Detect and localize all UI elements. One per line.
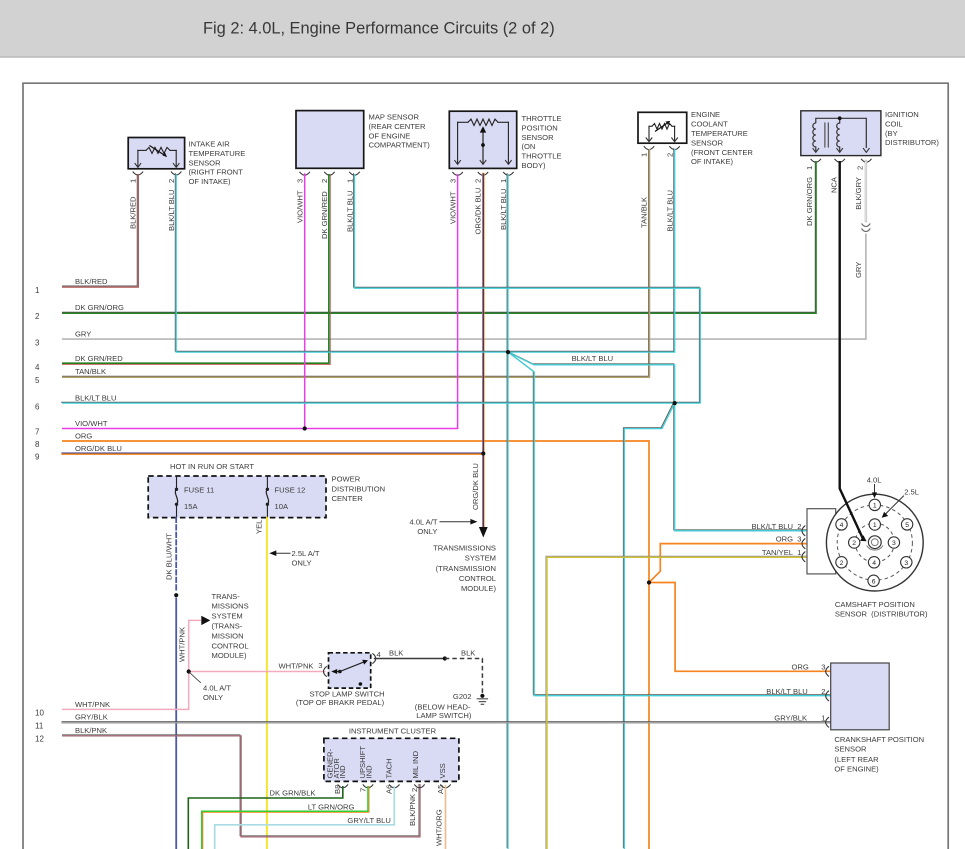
svg-text:2: 2 — [320, 179, 329, 183]
crankshaft position sensor label — [834, 735, 924, 774]
junction VIO/WHT row 7 / MAP pin 3 — [303, 426, 307, 430]
wire BLK/LT BLU intake pin 2 down and right to junction J1 — [175, 173, 507, 351]
svg-text:GRY/LT BLU: GRY/LT BLU — [347, 816, 390, 825]
svg-text:2: 2 — [474, 179, 483, 183]
stop lamp switch box — [329, 653, 371, 688]
row wire name labels — [75, 277, 124, 735]
wire BLK/LT BLU J1 right to ECT pin 2 — [507, 148, 674, 351]
ECT sensor label — [691, 110, 753, 166]
stop lamp switch pin 3 arc — [323, 666, 326, 676]
svg-text:DK GRN/BLK: DK GRN/BLK — [270, 788, 316, 797]
svg-text:MIL IND: MIL IND — [411, 750, 420, 778]
svg-text:BLK/LT BLU: BLK/LT BLU — [572, 354, 614, 363]
svg-text:BLK/RED: BLK/RED — [75, 277, 108, 286]
stop lamp switch pin 4 arc — [372, 653, 375, 663]
svg-text:1: 1 — [640, 153, 649, 157]
svg-text:12: 12 — [35, 735, 44, 744]
svg-text:LAMP SWITCH): LAMP SWITCH) — [416, 711, 472, 720]
svg-text:3: 3 — [797, 535, 801, 544]
junction WHT/PNK — [187, 669, 191, 673]
svg-text:2: 2 — [35, 312, 40, 321]
svg-text:1: 1 — [129, 179, 138, 183]
label TRANS-MISSIONS SYSTEM (TRANS-MISSION CONTROL MODULE) left — [212, 592, 249, 660]
svg-text:BLK: BLK — [389, 648, 403, 657]
svg-text:6: 6 — [35, 402, 40, 411]
svg-text:NCA: NCA — [830, 176, 839, 193]
svg-text:MISSIONS: MISSIONS — [212, 602, 249, 611]
svg-text:ORG: ORG — [75, 431, 92, 440]
svg-text:10: 10 — [35, 709, 44, 718]
svg-text:BLK/LT BLU: BLK/LT BLU — [766, 687, 808, 696]
svg-text:SENSOR: SENSOR — [522, 133, 555, 142]
svg-text:7: 7 — [35, 428, 40, 437]
svg-text:3: 3 — [318, 661, 322, 670]
svg-text:MODULE): MODULE) — [461, 584, 496, 593]
stop lamp switch contacts — [331, 660, 368, 686]
svg-text:(RIGHT FRONT: (RIGHT FRONT — [189, 168, 244, 177]
svg-text:CONTROL: CONTROL — [212, 641, 249, 650]
distributor terminal 3 — [888, 537, 899, 548]
fuse 11 symbol — [175, 476, 178, 518]
svg-text:2: 2 — [167, 179, 176, 183]
wire LT GRN/ORG from pin 7 to bottom edge — [202, 786, 369, 849]
svg-text:Fig 2: 4.0L, Engine Performanc: Fig 2: 4.0L, Engine Performance Circuits… — [203, 20, 555, 38]
wire GRY row 3 to coil pin 2 via break — [62, 234, 866, 340]
svg-text:TRANSMISSIONS: TRANSMISSIONS — [433, 544, 496, 553]
svg-text:INTAKE AIR: INTAKE AIR — [189, 140, 231, 149]
svg-text:THROTTLE: THROTTLE — [522, 152, 562, 161]
svg-text:WHT/ORG: WHT/ORG — [435, 809, 444, 846]
row numbers 1-12 — [35, 286, 44, 744]
wire DK GRN/ORG row 2 to ignition coil pin 1 — [62, 161, 816, 313]
svg-text:IND: IND — [364, 765, 373, 779]
svg-text:BLK/LT BLU: BLK/LT BLU — [75, 394, 117, 403]
svg-text:BLK/LT BLU: BLK/LT BLU — [167, 189, 176, 231]
svg-text:INSTRUMENT CLUSTER: INSTRUMENT CLUSTER — [349, 727, 437, 736]
svg-text:ORG: ORG — [776, 535, 793, 544]
wire ORG row 8 down right side to bottom — [62, 441, 649, 849]
svg-text:WHT/PNK: WHT/PNK — [278, 662, 313, 671]
wire BLK/GRY coil pin 2 segment — [865, 161, 867, 221]
4.0L A/T ONLY pointer arrow — [440, 519, 477, 525]
label 2.5L A/T ONLY — [292, 549, 320, 567]
svg-text:2: 2 — [797, 522, 801, 531]
instrument cluster box — [324, 738, 459, 781]
svg-text:3: 3 — [295, 179, 304, 183]
svg-text:SENSOR: SENSOR — [189, 158, 222, 167]
svg-text:VIO/WHT: VIO/WHT — [295, 190, 304, 223]
svg-text:B8: B8 — [333, 785, 342, 794]
distributor outer dashed ring — [837, 505, 912, 580]
svg-text:DK GRN/ORG: DK GRN/ORG — [805, 177, 814, 226]
svg-text:TRANS-: TRANS- — [212, 592, 241, 601]
wire DK GRN/BLK from pin B8 to bottom edge — [188, 786, 342, 849]
svg-text:OF ENGINE: OF ENGINE — [369, 131, 411, 140]
svg-text:4: 4 — [35, 363, 40, 372]
cluster pin arcs — [338, 784, 451, 787]
svg-text:2: 2 — [840, 560, 844, 567]
svg-text:4.0L: 4.0L — [867, 475, 882, 484]
svg-text:TEMPERATURE: TEMPERATURE — [189, 149, 246, 158]
distributor terminal 4 — [868, 557, 879, 568]
svg-text:(BY: (BY — [885, 129, 898, 138]
distributor inner dashed ring — [855, 523, 894, 562]
wire ORG/DK BLU TPS pin 2 down to transmission arrow — [482, 174, 484, 527]
svg-text:WHT/PNK: WHT/PNK — [177, 627, 186, 662]
svg-text:VSS: VSS — [438, 763, 447, 778]
svg-text:BLK/RED: BLK/RED — [129, 196, 138, 229]
wire WHT/ORG from pin A5 to bottom edge — [445, 786, 447, 849]
svg-text:2: 2 — [852, 540, 856, 547]
wire DK BLU/WHT from fuse 11 (dashed) — [175, 518, 177, 592]
wire BLK/LT BLU TPS pin 1 vertical through J1 to bottom edge — [506, 173, 508, 848]
MAP sensor — [296, 111, 364, 176]
svg-text:ONLY: ONLY — [417, 527, 437, 536]
distributor body circle — [826, 494, 923, 591]
svg-text:BLK/GRY: BLK/GRY — [854, 177, 863, 210]
wire BLK/RED row 1 to intake pin 1 — [62, 174, 138, 287]
svg-text:HOT IN RUN OR START: HOT IN RUN OR START — [170, 462, 254, 471]
svg-text:FUSE 12: FUSE 12 — [275, 485, 306, 494]
svg-text:4: 4 — [872, 560, 876, 567]
svg-text:ORG/DK BLU: ORG/DK BLU — [471, 463, 480, 510]
svg-text:ONLY: ONLY — [292, 559, 312, 568]
wire TAN/YEL from bottom edge to camshaft pin 1 — [546, 556, 808, 849]
svg-text:DK GRN/RED: DK GRN/RED — [75, 354, 123, 363]
junction BLK — [443, 656, 447, 660]
svg-text:2: 2 — [856, 166, 865, 170]
svg-text:2: 2 — [665, 153, 674, 157]
label 4.0L A/T ONLY (left) — [203, 684, 231, 702]
svg-text:TAN/BLK: TAN/BLK — [75, 367, 106, 376]
wire BLK/LT BLU J1 diagonal to labeled run, down to J2 and camshaft pin 2 — [507, 351, 807, 530]
svg-text:11: 11 — [35, 722, 44, 731]
svg-text:SENSOR: SENSOR — [834, 744, 867, 753]
svg-text:5: 5 — [35, 376, 40, 385]
svg-text:9: 9 — [35, 453, 40, 462]
svg-text:ORG/DK BLU: ORG/DK BLU — [75, 444, 122, 453]
power distribution center box — [148, 476, 326, 518]
wire BLK/LT BLU J2 to MAP pin 1 via right riser — [354, 173, 700, 402]
junction ORG branches — [647, 580, 651, 584]
wire BLK/LT BLU J1 branch to crankshaft pin 2 — [507, 351, 830, 695]
svg-text:4.0L A/T: 4.0L A/T — [409, 517, 437, 526]
svg-text:(FRONT CENTER: (FRONT CENTER — [691, 148, 753, 157]
svg-text:OF INTAKE): OF INTAKE) — [189, 177, 232, 186]
distributor terminal 2 — [849, 537, 860, 548]
stop lamp switch label — [296, 689, 385, 707]
svg-text:1: 1 — [873, 522, 877, 529]
svg-text:1: 1 — [821, 713, 825, 722]
svg-text:DK BLU/WHT: DK BLU/WHT — [164, 533, 173, 580]
svg-text:DISTRIBUTION: DISTRIBUTION — [332, 484, 386, 493]
svg-text:COOLANT: COOLANT — [691, 120, 728, 129]
svg-text:8: 8 — [35, 440, 40, 449]
title bar — [0, 0, 965, 57]
svg-text:(REAR CENTER: (REAR CENTER — [369, 122, 426, 131]
arrowhead WHT/PNK to transmission system — [201, 616, 210, 625]
svg-text:WHT/PNK: WHT/PNK — [75, 700, 110, 709]
svg-text:15A: 15A — [184, 502, 198, 511]
ignition coil label — [885, 110, 939, 147]
svg-text:(BELOW HEAD-: (BELOW HEAD- — [415, 702, 471, 711]
svg-text:G202: G202 — [453, 692, 472, 701]
svg-text:2: 2 — [821, 687, 825, 696]
svg-text:MODULE): MODULE) — [212, 651, 247, 660]
svg-text:10A: 10A — [275, 502, 289, 511]
svg-text:(TRANSMISSION: (TRANSMISSION — [436, 564, 496, 573]
wire GRY/LT BLU from pin A6 to bottom edge — [215, 786, 395, 849]
svg-text:GRY/BLK: GRY/BLK — [75, 713, 108, 722]
wire TAN/BLK row 5 to ECT pin 1 — [62, 149, 650, 377]
svg-text:BLK/LT BLU: BLK/LT BLU — [665, 190, 674, 232]
ground G202 symbol — [477, 694, 487, 705]
svg-text:1: 1 — [797, 548, 801, 557]
camshaft connector pin arcs — [802, 526, 805, 562]
wire BLK/LT BLU row 6 into J2 — [61, 401, 674, 403]
svg-text:THROTTLE: THROTTLE — [522, 114, 562, 123]
svg-text:DK GRN/RED: DK GRN/RED — [320, 191, 329, 239]
wire BLK from switch pin 4 — [375, 658, 445, 660]
label 2.5L with arrow to inner terminal 1 — [882, 488, 919, 518]
svg-text:(ON: (ON — [522, 142, 536, 151]
2.5L A/T ONLY pointer arrow — [269, 550, 290, 556]
svg-text:TAN/BLK: TAN/BLK — [640, 197, 649, 228]
svg-text:3: 3 — [448, 179, 457, 183]
distributor terminal 1 — [869, 519, 880, 530]
svg-text:CONTROL: CONTROL — [459, 574, 496, 583]
wire ORG branch to camshaft sensor pin 3 — [649, 544, 808, 583]
svg-text:3: 3 — [892, 540, 896, 547]
fuse 12 symbol — [266, 476, 269, 518]
svg-text:TAN/YEL: TAN/YEL — [762, 548, 793, 557]
svg-text:OF INTAKE): OF INTAKE) — [691, 157, 734, 166]
svg-text:ORG: ORG — [791, 663, 808, 672]
svg-text:4: 4 — [840, 522, 844, 529]
intake air temperature sensor (thermistor) — [128, 138, 184, 175]
svg-text:BLK/PNK: BLK/PNK — [75, 726, 107, 735]
svg-text:MISSION: MISSION — [212, 631, 244, 640]
svg-text:3: 3 — [904, 560, 908, 567]
svg-text:(LEFT REAR: (LEFT REAR — [834, 755, 879, 764]
svg-text:BLK/PNK: BLK/PNK — [408, 794, 417, 826]
crankshaft sensor box — [831, 663, 890, 730]
wire ORG branch to crankshaft sensor pin 3 — [649, 583, 832, 672]
wire WHT/PNK junction to stop lamp switch pin 3 — [189, 671, 325, 673]
distributor center electrode — [867, 536, 883, 550]
svg-text:DK GRN/ORG: DK GRN/ORG — [75, 303, 124, 312]
svg-text:3: 3 — [35, 338, 40, 347]
svg-text:CENTER: CENTER — [332, 494, 364, 503]
svg-text:SENSOR: SENSOR — [691, 138, 724, 147]
distributor terminal 4 — [836, 519, 847, 530]
distributor terminal 2 — [836, 557, 847, 568]
wire DK GRN/RED row 4 to MAP pin 2 — [62, 174, 330, 365]
arrowhead ORG/DK BLU to transmission system — [479, 527, 488, 538]
cluster pin label GENERATOR IND — [326, 748, 348, 778]
svg-text:5: 5 — [905, 522, 909, 529]
wire WHT/PNK row 10 up to junction and stop lamp switch pin 3 — [62, 620, 201, 709]
intake sensor label — [189, 140, 246, 187]
camshaft position sensor label — [835, 600, 928, 618]
wire break symbol on GRY — [862, 224, 871, 232]
svg-text:COMPARTMENT): COMPARTMENT) — [369, 141, 431, 150]
svg-text:TACH: TACH — [385, 758, 394, 778]
svg-text:SYSTEM: SYSTEM — [465, 554, 496, 563]
svg-text:(TOP OF BRAKR PEDAL): (TOP OF BRAKR PEDAL) — [296, 698, 385, 707]
svg-text:1: 1 — [805, 166, 814, 170]
svg-text:3: 3 — [821, 663, 825, 672]
svg-text:TEMPERATURE: TEMPERATURE — [691, 129, 748, 138]
svg-text:2.5L A/T: 2.5L A/T — [292, 549, 320, 558]
svg-text:YEL: YEL — [255, 520, 264, 534]
wire BLK dashed to ground — [445, 659, 483, 694]
distributor terminal 1 — [869, 499, 880, 510]
svg-text:GRY/BLK: GRY/BLK — [774, 713, 807, 722]
wire VIO/WHT MAP pin 3 drop — [304, 174, 306, 429]
MAP sensor label — [369, 113, 431, 150]
svg-text:SENSOR (DISTRIBUTOR): SENSOR (DISTRIBUTOR) — [835, 610, 928, 619]
cluster pin label UPSHIFT IND — [358, 746, 374, 779]
svg-text:MAP SENSOR: MAP SENSOR — [369, 113, 420, 122]
svg-text:2.5L: 2.5L — [904, 488, 919, 497]
distributor terminal 6 — [868, 575, 879, 586]
svg-text:7: 7 — [358, 788, 367, 792]
svg-text:1: 1 — [35, 286, 40, 295]
splice on DK BLU wire — [174, 593, 178, 597]
svg-text:OF ENGINE): OF ENGINE) — [834, 764, 879, 773]
svg-text:IGNITION: IGNITION — [885, 110, 919, 119]
junction J1 BLK/LT BLU — [506, 350, 510, 354]
svg-text:COIL: COIL — [885, 119, 903, 128]
wire BLK/PNK row 12 to instrument cluster MIL IND pin 2 — [62, 735, 420, 837]
svg-text:4.0L A/T: 4.0L A/T — [203, 684, 231, 693]
svg-text:6: 6 — [872, 578, 876, 585]
svg-text:LT GRN/ORG: LT GRN/ORG — [308, 803, 355, 812]
junction J2 BLK/LT BLU — [673, 401, 677, 405]
svg-text:ENGINE: ENGINE — [691, 110, 720, 119]
engine coolant temperature sensor (thermistor) — [638, 112, 687, 149]
wire ORG/DK BLU row 9 — [62, 453, 483, 454]
svg-text:BLK: BLK — [461, 648, 475, 657]
svg-text:A6: A6 — [385, 785, 394, 794]
wire NCA from coil to distributor center — [840, 161, 867, 541]
svg-text:ORG/DK BLU: ORG/DK BLU — [474, 188, 483, 235]
svg-text:ONLY: ONLY — [203, 693, 223, 702]
leader line to 4.0L A/T ONLY — [190, 673, 201, 683]
svg-text:4: 4 — [377, 650, 381, 659]
svg-text:IND: IND — [338, 765, 347, 779]
label (BELOW HEAD-LAMP SWITCH) — [415, 702, 472, 720]
label TRANSMISSIONS SYSTEM (TRANSMISSION CONTROL MODULE) right — [433, 544, 496, 593]
crank pin arcs — [826, 666, 829, 727]
label 4.0L A/T ONLY (right) — [409, 517, 437, 535]
svg-text:2: 2 — [410, 788, 419, 792]
svg-text:A5: A5 — [436, 785, 445, 794]
camshaft connector box — [807, 509, 836, 574]
ignition coil (transformer) — [801, 111, 881, 162]
svg-text:VIO/WHT: VIO/WHT — [448, 191, 457, 224]
svg-text:VIO/WHT: VIO/WHT — [75, 419, 108, 428]
label WHT/PNK 3 at switch — [278, 661, 322, 671]
svg-text:FUSE 11: FUSE 11 — [184, 485, 214, 494]
wire VIO/WHT row 7 to TPS pin 3 — [62, 174, 458, 429]
distributor terminal 3 — [901, 557, 912, 568]
svg-text:(TRANS-: (TRANS- — [212, 622, 243, 631]
distributor terminal 5 — [901, 519, 912, 530]
wire GRY/BLK row 11 to crankshaft pin 1 — [62, 722, 832, 723]
power distribution center label — [332, 475, 386, 503]
wire YEL from fuse 12 to bottom edge — [266, 518, 268, 849]
svg-text:1: 1 — [873, 502, 877, 509]
svg-text:BODY): BODY) — [522, 161, 547, 170]
svg-text:POSITION: POSITION — [522, 123, 558, 132]
TPS label — [522, 114, 562, 170]
wire BLK/LT BLU J2 diagonal branch down to bottom edge — [623, 402, 673, 848]
junction ORG/DK BLU row 9 — [481, 451, 485, 455]
svg-text:GRY: GRY — [854, 262, 863, 278]
label 4.0L with arrow to terminal 1 — [867, 475, 882, 498]
throttle position sensor (potentiometer) — [449, 111, 516, 175]
svg-text:POWER: POWER — [332, 475, 361, 484]
svg-text:SYSTEM: SYSTEM — [212, 612, 243, 621]
svg-text:DISTRIBUTOR): DISTRIBUTOR) — [885, 138, 939, 147]
wire DK BLU solid to bottom edge — [175, 599, 177, 849]
svg-text:CAMSHAFT POSITION: CAMSHAFT POSITION — [835, 600, 915, 609]
svg-text:GRY: GRY — [75, 330, 91, 339]
svg-text:CRANKSHAFT POSITION: CRANKSHAFT POSITION — [834, 735, 924, 744]
svg-text:BLK/LT BLU: BLK/LT BLU — [751, 522, 793, 531]
